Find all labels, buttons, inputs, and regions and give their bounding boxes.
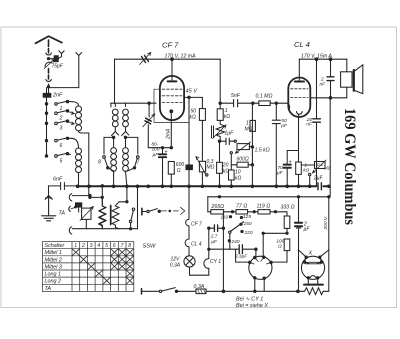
ground <box>42 205 56 221</box>
IF transformer secondary coil <box>122 103 129 186</box>
potentiometer 1uF zig-zag with capacitor plates <box>212 120 227 141</box>
svg-text:6: 6 <box>60 143 63 149</box>
resistor 1 kOhm (screen feed) <box>217 103 223 120</box>
TA jack lower contact <box>69 227 137 234</box>
resistor 10 kOhm <box>229 165 235 187</box>
svg-text:170 V, 12 mA: 170 V, 12 mA <box>165 54 197 60</box>
wire 0,1M node down <box>275 103 277 186</box>
svg-text:0,3A: 0,3A <box>194 284 205 290</box>
switch linkage (dash-dot) <box>162 207 185 214</box>
capacitor 2uF (HT filter) <box>295 223 302 228</box>
svg-text:kΩ: kΩ <box>190 115 197 121</box>
potentiometer 1,5 kOhm <box>235 142 253 153</box>
heater chain wire with CF7 bump <box>186 186 189 239</box>
svg-text:75pF: 75pF <box>52 63 64 69</box>
capacitor 2,7uF <box>208 225 225 232</box>
wire pot wiper to transformer <box>89 196 104 198</box>
coil L1 (upper band coil) <box>71 102 89 133</box>
wire top feed from HT line down to IF coil <box>114 59 116 103</box>
svg-text:1: 1 <box>74 243 77 249</box>
svg-text:125: 125 <box>243 214 251 220</box>
HT wire CL4 <box>299 58 347 61</box>
svg-text:150: 150 <box>244 221 252 227</box>
wire 150/220 tap link <box>262 232 287 256</box>
wire bus drop right of transformer <box>137 186 139 228</box>
svg-text:0,3µF: 0,3µF <box>235 254 248 260</box>
tube CL4 grids (dashed) <box>291 89 308 98</box>
svg-text:Schalter: Schalter <box>45 243 65 249</box>
tube CF7 shield box <box>154 89 189 122</box>
resistor (field coil zig-zag) <box>298 288 329 295</box>
svg-text:Mittel 2: Mittel 2 <box>45 257 62 263</box>
wire CF7 screen to 50k <box>184 96 202 98</box>
svg-text:Mittel 1: Mittel 1 <box>45 250 62 256</box>
switch (transformer tap) <box>129 208 134 230</box>
wire right HT column <box>298 197 300 291</box>
resistor 600 Ohm cathode <box>168 162 174 187</box>
potentiometer volume (box with arrow) <box>80 207 93 229</box>
wire screen dropper vertical <box>188 97 190 164</box>
svg-text:265Ω: 265Ω <box>211 204 225 210</box>
svg-text:SSW: SSW <box>143 243 156 249</box>
tube CF7 anode <box>168 59 177 81</box>
switch contact 1 <box>45 100 71 105</box>
output transformer core bar <box>304 284 323 286</box>
svg-text:kΩ: kΩ <box>223 168 230 174</box>
dial lamp 12V 0,3A <box>184 256 209 275</box>
capacitor 20nF <box>313 59 321 186</box>
svg-text:CF 7: CF 7 <box>191 222 202 228</box>
switch contact 7 <box>126 137 140 171</box>
svg-text:200 V: 200 V <box>323 216 329 230</box>
svg-text:3: 3 <box>60 125 63 131</box>
trimmer capacitor on HT wire <box>140 52 151 64</box>
label 2,7uF <box>210 234 218 245</box>
svg-text:Bei = siehe X: Bei = siehe X <box>236 303 268 309</box>
second chassis line <box>208 196 330 198</box>
svg-text:170 V, 15m A: 170 V, 15m A <box>301 53 332 59</box>
label 20nF <box>306 117 313 128</box>
wire HT down to CL4 not present; corner down at 220 <box>219 59 221 103</box>
wire cathode bias row <box>148 147 172 149</box>
svg-text:TA: TA <box>59 211 66 217</box>
capacitor 50 pF <box>272 120 280 123</box>
svg-text:5nF: 5nF <box>231 93 241 99</box>
svg-text:5: 5 <box>60 158 63 164</box>
svg-text:5: 5 <box>105 243 108 249</box>
wire speaker top <box>346 59 348 72</box>
wire tap column down <box>222 212 224 291</box>
resistor 265 Ohm <box>208 210 236 214</box>
svg-text:4: 4 <box>97 243 100 249</box>
resistor 50 kOhm <box>199 97 205 161</box>
svg-text:3: 3 <box>90 243 93 249</box>
wire right column of band section <box>88 133 90 196</box>
svg-text:X: X <box>308 250 313 256</box>
resistor 20 kOhm <box>217 141 223 186</box>
antenna input 3 (Y socket) with down lead <box>49 53 82 88</box>
capacitor 75pF (antenna trimmer) <box>44 56 61 69</box>
wire right edge column <box>329 98 330 291</box>
loudspeaker <box>341 65 363 94</box>
label 1 MOhm <box>245 121 253 133</box>
antenna lead-in with plug connectors <box>46 40 52 95</box>
svg-text:8: 8 <box>128 243 131 249</box>
svg-text:2,7: 2,7 <box>210 234 218 240</box>
svg-text:kΩ: kΩ <box>235 175 242 181</box>
wire anode coupling node <box>219 102 233 104</box>
antenna <box>36 36 62 43</box>
heater CL4 bump <box>185 239 189 256</box>
svg-text:Ω: Ω <box>278 244 282 250</box>
svg-text:110: 110 <box>221 215 229 221</box>
label 1 kOhm (screen) <box>224 108 231 120</box>
svg-text:0,1: 0,1 <box>317 162 324 167</box>
mains on/off switch <box>142 208 161 214</box>
resistor 1 MOhm <box>250 120 255 131</box>
table column numbers <box>74 243 131 249</box>
heater CY1 bump <box>204 228 209 275</box>
switch contact 3 <box>45 120 74 125</box>
tube CF7 grids (dashed) <box>162 89 182 102</box>
fuse 0,3A <box>196 289 206 294</box>
voltage selector blade <box>229 222 244 249</box>
wave-band switch bank vertical line <box>46 104 48 156</box>
svg-text:45 V: 45 V <box>186 89 199 95</box>
resistor (tone, vertical zig-zag) <box>99 185 106 229</box>
svg-text:CL 4: CL 4 <box>294 40 310 49</box>
resistor 119 Ohm <box>258 210 277 214</box>
TA switch contact <box>69 206 77 211</box>
antenna input 2 (Y socket) <box>59 51 64 57</box>
svg-text:333 Ω: 333 Ω <box>281 205 295 211</box>
svg-text:80-: 80- <box>152 142 159 148</box>
label 70uF <box>277 165 284 176</box>
capacitor 0,3uF <box>230 245 257 254</box>
svg-text:MΩ: MΩ <box>245 126 253 132</box>
wire 240 tap line <box>209 248 230 250</box>
svg-text:kΩ: kΩ <box>303 168 309 174</box>
HT supply wire 170V <box>115 58 221 61</box>
svg-text:240: 240 <box>231 239 240 245</box>
svg-text:6nF: 6nF <box>53 176 63 182</box>
svg-text:µF: µF <box>304 227 311 233</box>
potentiometer 0,1 MOhm (feedback) <box>301 160 326 186</box>
mains transformer primary winding <box>99 197 106 228</box>
transformer core <box>110 206 112 225</box>
capacitor 6nF <box>49 182 78 189</box>
svg-text:Long 1: Long 1 <box>45 272 62 278</box>
switch contact 8 <box>103 137 114 171</box>
svg-text:1,5 kΩ: 1,5 kΩ <box>255 147 270 153</box>
voltage taps 110/125/150/220/240 <box>228 216 243 242</box>
band switch table <box>42 242 133 292</box>
wire mains dropper feed <box>207 197 209 212</box>
resistor 0,1 MOhm <box>252 101 278 106</box>
svg-text:0,1 MΩ: 0,1 MΩ <box>256 94 273 100</box>
label 20 kOhm <box>222 163 230 175</box>
switch numerals <box>59 106 141 165</box>
svg-text:1: 1 <box>60 106 63 112</box>
svg-text:2: 2 <box>59 116 63 122</box>
rectifier tube (mains valve) <box>236 249 273 292</box>
tube CF7 envelope <box>160 76 184 120</box>
table row labels <box>45 243 65 292</box>
svg-text:CL 4: CL 4 <box>191 241 202 247</box>
wire screen CL4 <box>310 97 331 100</box>
svg-text:2nF: 2nF <box>52 93 63 99</box>
capacitor 2uF (bus series) <box>318 183 321 190</box>
antenna earth arrow symbol <box>45 195 52 205</box>
tube CL4 anode <box>295 59 304 81</box>
capacitor 70 uF electrolytic <box>284 151 299 187</box>
tap labels <box>221 214 253 245</box>
capacitor (screen bypass, block) <box>186 165 192 186</box>
label 10 kOhm <box>235 170 242 182</box>
svg-text:Ω: Ω <box>177 168 181 174</box>
wire bottom mains line <box>142 289 300 294</box>
tube CL4 envelope <box>288 78 310 117</box>
capacitor (AF coupling) <box>226 138 236 144</box>
label 100 Ohm <box>276 239 284 250</box>
grid trimmer capacitor <box>143 103 155 148</box>
svg-text:169 GW Columbus: 169 GW Columbus <box>341 108 358 225</box>
wire AF node <box>218 140 225 142</box>
svg-text:TA: TA <box>45 286 52 292</box>
svg-text:77 Ω: 77 Ω <box>236 203 247 209</box>
svg-text:kΩ: kΩ <box>224 114 231 120</box>
ground branch wire <box>48 186 50 194</box>
svg-text:119 Ω: 119 Ω <box>257 203 271 209</box>
svg-text:1µF: 1µF <box>225 131 235 137</box>
svg-text:MΩ: MΩ <box>207 165 215 171</box>
capacitor 80-100uF electrolytic <box>159 148 166 187</box>
label 50pF <box>280 118 288 129</box>
svg-text:MΩ: MΩ <box>324 166 332 171</box>
tube CL4 cathode <box>297 112 303 187</box>
potentiometer 0,3 MOhm <box>196 157 208 187</box>
resistor 1 kOhm cathode CL4 <box>296 162 302 174</box>
svg-text:0,3A: 0,3A <box>170 263 181 269</box>
svg-text:2: 2 <box>81 243 85 249</box>
wire grid line y103 <box>111 102 156 104</box>
svg-text:Long 2: Long 2 <box>45 279 62 285</box>
main chassis bus <box>78 185 329 187</box>
resistor 100 Ohm <box>272 239 290 262</box>
svg-text:Bei ∿ CY 1: Bei ∿ CY 1 <box>236 297 263 303</box>
capacitor 5nF <box>234 100 253 107</box>
label 12V 0,3A <box>170 257 181 269</box>
label 2nF (tone) <box>320 77 327 88</box>
label 600 Ohm (cathode CF7) <box>176 162 185 174</box>
label 2uF (HT filter) <box>303 221 310 232</box>
resistor 333 Ohm <box>276 212 290 235</box>
switch contact 6 <box>45 137 71 142</box>
svg-text:+: + <box>165 150 168 156</box>
svg-text:CY 1: CY 1 <box>210 259 221 265</box>
capacitor (TA coupling, block) <box>76 203 82 212</box>
TA jack upper contact <box>69 194 91 201</box>
wire to CL4 grid <box>276 103 289 108</box>
capacitor 2nF (tone) <box>327 59 334 98</box>
resistor 77 Ohm <box>236 210 258 214</box>
bus junction dots <box>76 185 330 188</box>
label 50 kOhm <box>190 109 197 121</box>
svg-text:CF 7: CF 7 <box>162 41 179 50</box>
resistor 600 Ohm (hum) <box>230 152 253 168</box>
label 80-100uF <box>152 142 160 158</box>
capacitor 2nF <box>43 88 51 104</box>
svg-text:8: 8 <box>98 160 101 166</box>
wire secondary top to bus <box>119 186 128 203</box>
coil L2 (lower band coil) <box>71 138 82 186</box>
svg-text:220: 220 <box>244 230 253 236</box>
wire 1,5k to bus <box>251 104 253 186</box>
switch contact 5 <box>45 153 70 158</box>
svg-text:2µF: 2µF <box>313 176 324 182</box>
label 0,1 MOhm feedback <box>317 162 332 171</box>
svg-text:7: 7 <box>121 243 124 249</box>
mains transformer secondary winding <box>112 202 119 229</box>
IF transformer primary coil <box>111 103 119 186</box>
label 1 kOhm cathode CL4 <box>303 163 309 174</box>
mains switch 2nd pole <box>159 288 177 293</box>
table cross marks <box>72 249 134 285</box>
output transformer X <box>299 250 329 284</box>
svg-text:pF: pF <box>280 123 288 129</box>
svg-text:+: + <box>289 160 292 166</box>
tube CF7 cathode <box>170 110 173 148</box>
svg-text:2mA: 2mA <box>166 128 172 140</box>
label 0,3 MOhm <box>207 159 215 171</box>
wire speaker bottom <box>331 87 347 98</box>
svg-text:Mittel 3: Mittel 3 <box>45 264 62 270</box>
svg-text:6: 6 <box>113 243 116 249</box>
svg-text:100: 100 <box>152 147 160 153</box>
switch contact 2 <box>45 110 74 115</box>
svg-text:600Ω: 600Ω <box>237 156 249 162</box>
